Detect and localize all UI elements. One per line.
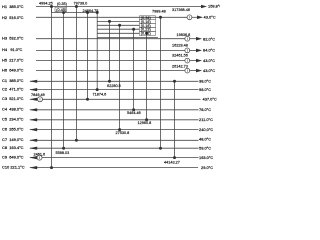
node b4 dot <box>132 28 135 31</box>
svg-text:29.0°C: 29.0°C <box>201 165 213 170</box>
svg-text:82.0°C: 82.0°C <box>203 37 215 42</box>
node E top <box>86 11 89 14</box>
split fraction boxes <box>55 7 156 35</box>
wire C8 <box>30 147 199 149</box>
exchanger b2 vertical b2-C1 <box>109 21 111 81</box>
cooler H5 <box>185 58 190 63</box>
wire H1 main <box>36 6 201 8</box>
svg-text:240.0°C: 240.0°C <box>199 127 213 132</box>
box column H2 fractions <box>140 16 156 20</box>
svg-text:437.0°C: 437.0°C <box>203 97 217 102</box>
svg-text:C8 163.4°C: C8 163.4°C <box>2 145 24 150</box>
svg-text:19836.8: 19836.8 <box>177 33 191 37</box>
node C2 b1 <box>96 88 99 91</box>
cooler H1 branch <box>187 15 192 20</box>
wire C1 <box>30 80 199 82</box>
wire C5 <box>30 119 199 121</box>
arrow H4 <box>196 49 202 53</box>
node b2 dot <box>108 20 111 23</box>
svg-text:H2 516.0°C: H2 516.0°C <box>2 15 24 20</box>
node C10 A <box>50 166 53 169</box>
arrow C6 <box>29 128 37 131</box>
svg-text:5464.46: 5464.46 <box>127 111 141 115</box>
node split top <box>96 11 99 14</box>
node C7 D <box>75 139 78 142</box>
arrow C3 <box>29 98 37 101</box>
svg-text:43.0°C: 43.0°C <box>203 68 215 73</box>
heater C9 <box>37 155 42 160</box>
heater C3 <box>38 97 43 102</box>
exchanger b4 vertical b4-C4 <box>133 29 135 110</box>
svg-text:H5 217.0°C: H5 217.0°C <box>2 57 24 62</box>
svg-text:H1 385.0°C: H1 385.0°C <box>2 4 24 9</box>
arrow H5 <box>196 59 202 63</box>
exchanger b3 vertical b3-C6 <box>119 25 121 129</box>
svg-text:317368.46: 317368.46 <box>172 8 190 12</box>
svg-text:159.8°C: 159.8°C <box>208 4 220 9</box>
exchanger E vertical branch-C3 <box>87 13 89 100</box>
arrow C9 <box>29 156 37 159</box>
svg-text:C4 438.0°C: C4 438.0°C <box>2 107 24 112</box>
node D top <box>75 5 78 8</box>
svg-text:(0.35): (0.35) <box>57 2 68 6</box>
svg-text:H3 532.0°C: H3 532.0°C <box>2 36 24 41</box>
svg-text:43.0°C: 43.0°C <box>203 58 215 63</box>
arrow H3 <box>196 37 202 41</box>
node C1 F <box>173 80 176 83</box>
svg-text:C7 149.0°C: C7 149.0°C <box>2 137 24 142</box>
exchanger D vertical H1-C7 <box>75 7 77 141</box>
svg-text:211.0°C: 211.0°C <box>199 117 213 122</box>
wire branch b4 <box>97 32 139 34</box>
wire H6 <box>36 70 185 72</box>
node H1 split <box>50 5 53 8</box>
svg-text:71874.6: 71874.6 <box>93 92 107 96</box>
node C3 E <box>86 98 89 101</box>
exchanger B2 vertical H2-C8 <box>160 17 162 148</box>
svg-text:12960.8: 12960.8 <box>138 121 152 125</box>
svg-text:C6 265.0°C: C6 265.0°C <box>2 126 24 131</box>
svg-text:38.0°C: 38.0°C <box>199 79 211 84</box>
svg-text:16229.48: 16229.48 <box>172 43 188 47</box>
cooler H6 <box>185 68 190 73</box>
svg-text:79739.0: 79739.0 <box>74 1 88 5</box>
svg-text:C3 521.0°C: C3 521.0°C <box>2 96 24 101</box>
wire C7 <box>30 139 199 141</box>
svg-text:H4 91.0°C: H4 91.0°C <box>2 47 23 52</box>
node b3 dot <box>118 24 121 27</box>
svg-text:59.0°C: 59.0°C <box>199 145 211 150</box>
wire C9 <box>30 157 37 159</box>
svg-text:C10 221.1°C: C10 221.1°C <box>2 164 25 169</box>
svg-text:26142.73: 26142.73 <box>172 64 188 68</box>
node B2 top <box>159 16 162 19</box>
exchanger F vertical C1-C9 <box>174 81 176 157</box>
svg-text:78.0°C: 78.0°C <box>199 107 211 112</box>
node C6 b3 <box>118 128 121 131</box>
svg-text:(0.12): (0.12) <box>141 32 152 36</box>
svg-text:7989.48: 7989.48 <box>152 9 166 13</box>
node b5 dot <box>145 32 148 35</box>
box (0.45) on H1 branch <box>55 7 67 12</box>
arrow H1 branch <box>197 16 203 20</box>
wire C4 <box>30 109 199 111</box>
svg-text:C2 471.0°C: C2 471.0°C <box>2 86 24 91</box>
svg-text:H6 649.0°C: H6 649.0°C <box>2 67 24 72</box>
wire branch b1 <box>97 20 139 22</box>
wire C2 <box>30 89 199 91</box>
wire C3 <box>30 98 38 100</box>
exchanger b1 vertical b1-C2 <box>96 13 98 90</box>
arrow C4 <box>29 108 37 111</box>
node C8 B <box>62 147 65 150</box>
wire H1 branch <box>51 7 53 13</box>
arrow C7 <box>29 139 37 142</box>
svg-text:98.0°C: 98.0°C <box>199 87 211 92</box>
wire branch b5 <box>97 36 158 38</box>
arrow H1 <box>201 5 207 9</box>
arrow C10 <box>29 166 37 169</box>
svg-text:4994.25: 4994.25 <box>39 2 53 6</box>
wire H3 <box>36 38 185 40</box>
svg-text:C1 385.0°C: C1 385.0°C <box>2 78 24 83</box>
svg-text:62280.5: 62280.5 <box>107 84 121 88</box>
node C5 b5 <box>145 118 148 121</box>
node C1 b2 <box>108 80 111 83</box>
wire H4 <box>36 49 185 51</box>
svg-text:27530.8: 27530.8 <box>116 131 130 135</box>
svg-text:84.0°C: 84.0°C <box>203 48 215 53</box>
wire branch b2 <box>97 24 139 26</box>
wire branch b3 <box>97 28 139 30</box>
node C8 B2 <box>159 147 162 150</box>
arrow C5 <box>29 118 37 121</box>
svg-text:C5 234.0°C: C5 234.0°C <box>2 117 24 122</box>
cooler H4 <box>185 48 190 53</box>
svg-text:44143.27: 44143.27 <box>164 161 180 165</box>
node C9 F <box>173 156 176 159</box>
node C4 b4 <box>132 108 135 111</box>
svg-text:24664.75: 24664.75 <box>83 9 99 13</box>
wire H2 <box>36 16 187 18</box>
exchanger A vertical H1-C10 <box>51 7 53 168</box>
arrow H6 <box>196 69 202 73</box>
node B top <box>62 11 65 14</box>
cold stream left arrowheads <box>29 80 37 170</box>
svg-text:32461.56: 32461.56 <box>172 54 188 58</box>
exchanger b5 vertical b5-C5 <box>146 33 148 120</box>
wire C6 <box>30 129 199 131</box>
svg-text:2461.6: 2461.6 <box>34 152 46 156</box>
arrow C8 <box>29 147 37 150</box>
svg-text:48.0°C: 48.0°C <box>199 137 211 142</box>
svg-text:7849.49: 7849.49 <box>31 93 45 97</box>
wire H5 <box>36 60 185 62</box>
svg-text:C9 649.0°C: C9 649.0°C <box>2 154 24 159</box>
exchanger B vertical branch-C8 <box>63 13 65 149</box>
wire C10 <box>30 167 198 169</box>
svg-text:43.0°C: 43.0°C <box>204 15 216 20</box>
utility circles <box>37 15 192 160</box>
cooler H3 <box>185 36 190 41</box>
svg-text:(0.45): (0.45) <box>56 8 67 12</box>
circle inner marks <box>40 16 190 159</box>
hot stream right arrowheads <box>196 5 207 73</box>
arrow C1 <box>29 80 37 83</box>
svg-text:163.0°C: 163.0°C <box>199 155 213 160</box>
arrow C2 <box>29 88 37 91</box>
svg-text:5588.03: 5588.03 <box>56 151 70 155</box>
